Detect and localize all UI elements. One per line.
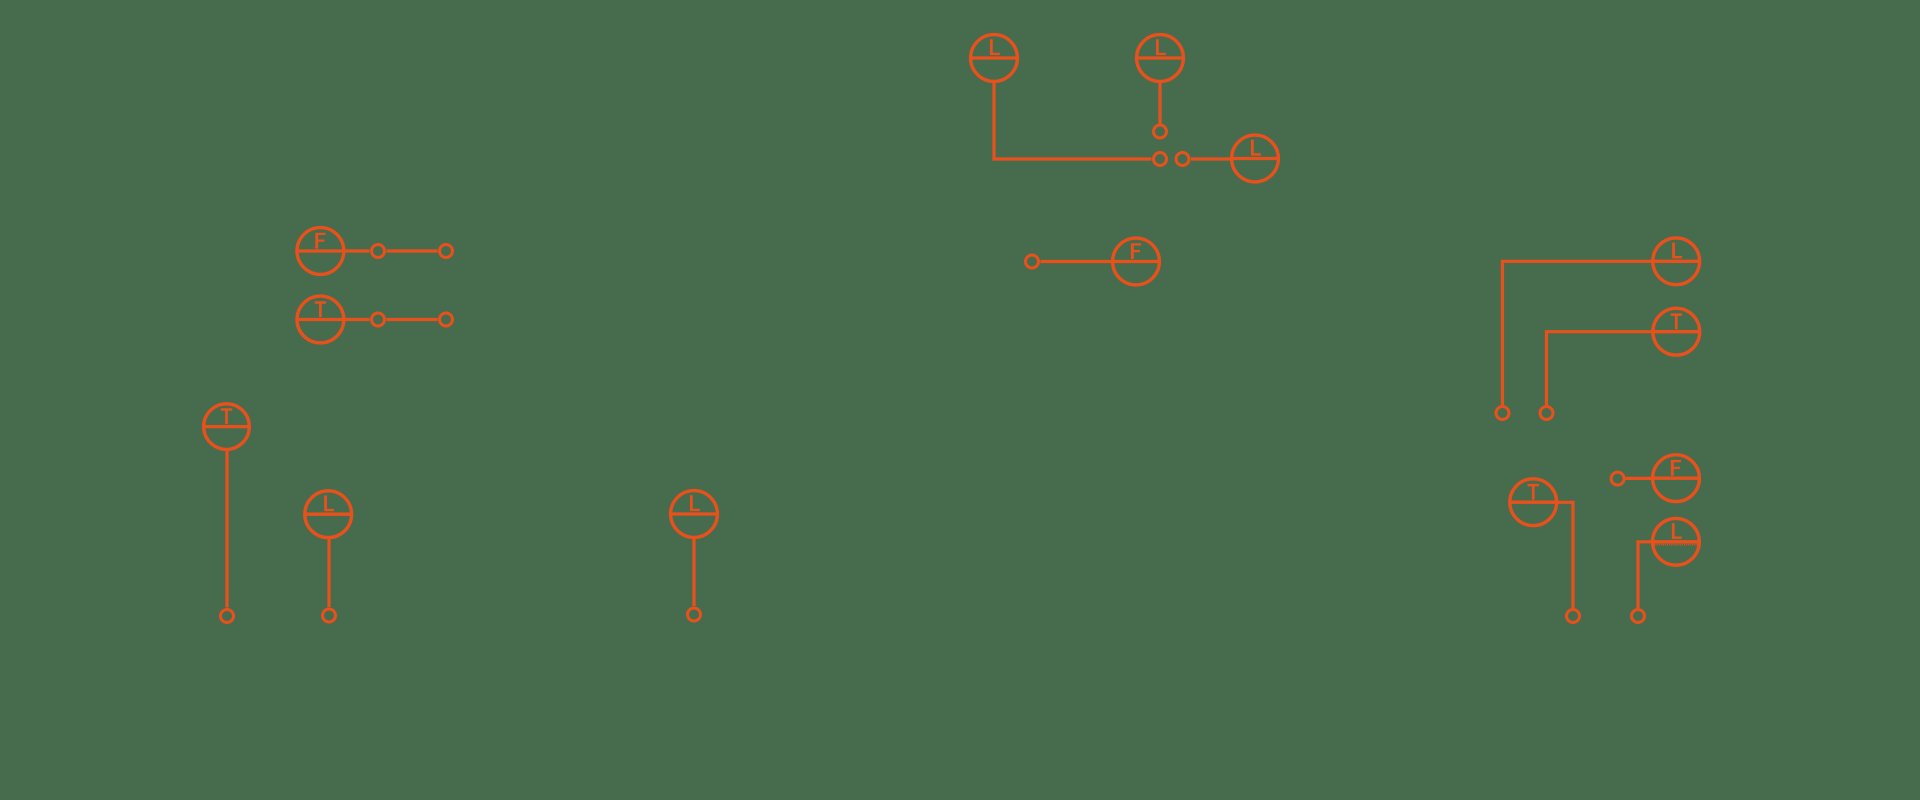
node N10	[688, 608, 701, 621]
fuse F1	[296, 228, 345, 275]
lamp L3	[1231, 135, 1280, 182]
wire from node N15 to F3	[1626, 477, 1652, 480]
transformer T1	[296, 296, 345, 343]
wire from F1 to node N4	[345, 249, 370, 252]
wire from L6 to node N12	[1503, 261, 1652, 405]
wire from T3 to node N13	[1547, 332, 1653, 405]
lamp L2	[1136, 35, 1185, 82]
node N14	[1567, 610, 1580, 623]
node N1	[1154, 153, 1167, 166]
node N11	[1026, 255, 1039, 268]
node N5	[440, 245, 453, 258]
wire from L2 to node N2	[1158, 82, 1161, 124]
lamp L1	[970, 35, 1019, 82]
node N13	[1540, 407, 1553, 420]
fuse F2	[1112, 238, 1161, 285]
wire from T2 to node N8	[225, 450, 228, 608]
node N2	[1154, 125, 1167, 138]
wire from L4 to node N9	[327, 539, 330, 608]
lamp L6	[1652, 238, 1701, 285]
wire from T1 to node N6	[345, 318, 370, 321]
fuse F3	[1652, 455, 1701, 502]
wire from L1 to node N1	[994, 82, 1152, 159]
node N4	[372, 245, 385, 258]
node N3	[1176, 153, 1189, 166]
node N6	[372, 313, 385, 326]
transformer T3	[1652, 308, 1701, 355]
wire from node N3 to L3	[1191, 157, 1232, 160]
transformer T2	[203, 404, 251, 450]
wire from T4 to node N14	[1557, 502, 1573, 608]
node N16	[1632, 610, 1645, 623]
wire from L5 to node N10	[692, 539, 695, 607]
lamp L4	[304, 491, 353, 538]
node N7	[440, 313, 453, 326]
wire from L7 to node N16	[1638, 542, 1652, 608]
node N9	[323, 609, 336, 622]
lamp L7	[1651, 518, 1700, 565]
node N12	[1496, 407, 1509, 420]
node N8	[221, 610, 234, 623]
wire from node N4 to node N5	[387, 249, 438, 252]
node N15	[1611, 472, 1624, 485]
wire from node N11 to F2	[1041, 260, 1113, 263]
wire from node N6 to node N7	[387, 318, 438, 321]
lamp L5	[670, 491, 719, 538]
transformer T4	[1509, 479, 1558, 526]
